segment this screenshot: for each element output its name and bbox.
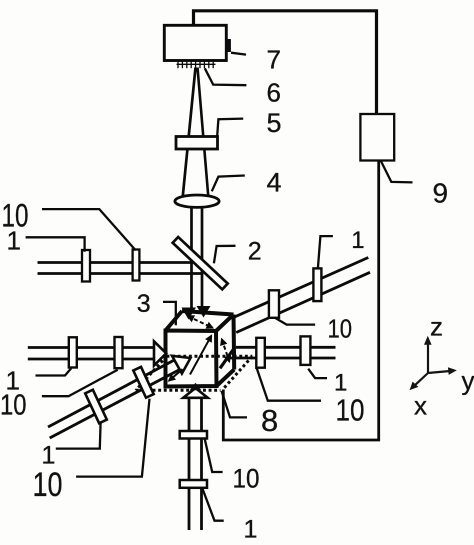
svg-text:x: x [414, 391, 427, 421]
plate 10 on left beam [115, 337, 123, 368]
plate 1 on left beam [69, 337, 77, 367]
leader line for 3 [163, 302, 176, 325]
internal ray arrow on cube top face (double headed) [188, 316, 213, 328]
nub on laser box right edge [226, 39, 231, 52]
internal ray arrow from bottom to top-right corner [190, 336, 211, 375]
internal ray arrow to lower-left [169, 369, 183, 380]
hatch 6 (laser output facet) [177, 60, 216, 68]
lower-left input beam (diagonal hollow arrow) [48, 360, 175, 427]
tilted plate 10 on diagonal beam [133, 367, 153, 398]
svg-text:3: 3 [137, 290, 151, 318]
leader line for right 10 [257, 368, 321, 401]
leader line for 4 [212, 176, 245, 192]
leader line for bottom 1 [202, 488, 223, 521]
plate 10 on bottom beam [180, 431, 207, 439]
wire from laser 7 to detector 9 (top loop) [194, 11, 377, 114]
svg-text:10: 10 [328, 314, 353, 344]
vertical beam edges from lens 4 down to cube 3 [190, 205, 193, 310]
plate 10 on right beam [256, 338, 265, 368]
svg-text:8: 8 [261, 403, 278, 438]
leader line for right 1 [308, 369, 327, 378]
leader line for 7 [231, 53, 246, 55]
leader line for lower-left 1 [56, 422, 101, 448]
svg-text:10: 10 [233, 464, 260, 494]
plate 10 on upper-left beam [133, 250, 140, 281]
leader line for 5 [217, 119, 243, 136]
svg-text:1: 1 [244, 516, 258, 544]
tilted plate 1 on diagonal beam [85, 390, 107, 424]
wire from detector 9 down, left along bottom, up to element 8 [223, 161, 378, 441]
dotted plane 8 (parallelogram) [136, 356, 253, 390]
svg-text:1: 1 [351, 227, 364, 254]
leader line for upper-right 1 [318, 236, 333, 268]
leader line for top-left 10 [42, 209, 136, 250]
z axis arrowhead [424, 336, 432, 345]
laser box 7 [164, 25, 226, 60]
svg-text:10: 10 [33, 466, 63, 504]
upper-right output beam (diagonal) [234, 258, 368, 318]
beam exit mark on cube right face [220, 347, 235, 368]
leader line for top-left 1 [26, 237, 85, 252]
leader line for 2 [214, 246, 236, 263]
leader line for 8 [222, 391, 247, 417]
svg-text:5: 5 [267, 108, 282, 138]
svg-text:z: z [430, 312, 443, 342]
leader line for upper-right 10 [275, 318, 315, 325]
leader line for 6 [205, 68, 247, 85]
bottom input beam (vertical hollow arrow) [188, 398, 191, 531]
y axis arrowhead [448, 367, 457, 375]
plate 1 on upper-left beam [82, 250, 90, 282]
coordinate axes [414, 342, 452, 387]
detector box 9 [360, 114, 394, 161]
plate 10 on upper-right beam [269, 290, 279, 318]
svg-text:9: 9 [433, 177, 449, 208]
leader line for left 10 [42, 370, 118, 397]
arrowhead of beam onto cube top (left) [182, 308, 197, 320]
x axis arrowhead [410, 382, 419, 391]
plate 1 on right beam [301, 336, 311, 365]
svg-text:10: 10 [0, 390, 27, 422]
leader line for bottom 10 [205, 438, 223, 472]
solid arrowhead at cube bottom [190, 383, 202, 391]
lens 4 [175, 195, 219, 207]
plate 1 on bottom beam [180, 480, 207, 488]
svg-text:2: 2 [248, 238, 262, 266]
svg-text:10: 10 [336, 393, 365, 428]
upper-left beam (horizontal, into mirror 2) [38, 261, 193, 264]
beamsplitter cube 3 [166, 311, 235, 387]
mirror 2 (tilted beamsplitter plate) [173, 237, 228, 289]
svg-text:4: 4 [267, 167, 282, 197]
arrowhead of beam onto cube top (right) [197, 306, 211, 318]
leader line for lower-left 10 [76, 399, 149, 477]
svg-text:y: y [462, 366, 474, 396]
svg-text:7: 7 [267, 44, 281, 74]
element 5 (aperture plate) [176, 137, 218, 150]
right output beam (horizontal) [236, 346, 336, 349]
svg-text:6: 6 [267, 78, 281, 108]
plate 1 on upper-right beam [313, 268, 321, 301]
internal ray double arrow to right face (dashed) [222, 339, 230, 361]
diverging beam from laser to lens 4 [183, 68, 196, 200]
leader line for 9 [381, 161, 413, 183]
leader line for left 1 [36, 368, 72, 375]
svg-text:1: 1 [7, 226, 21, 256]
left input beam (horizontal hollow arrow) [28, 346, 155, 349]
